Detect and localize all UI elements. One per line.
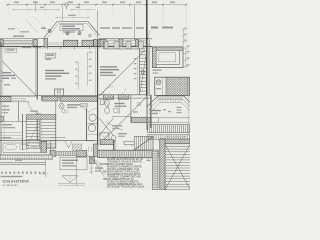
svg-text:su cata perim.: su cata perim. xyxy=(3,184,19,187)
svg-text:RETE ELETTROSALDATA 20x20: RETE ELETTROSALDATA 20x20 xyxy=(107,185,145,188)
svg-text:SCALA ESTERNA: SCALA ESTERNA xyxy=(3,180,30,184)
